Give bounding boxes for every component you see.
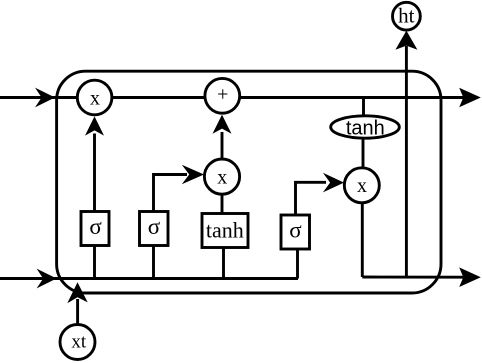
svg-text:σ: σ: [289, 218, 302, 243]
node xt (input): [60, 325, 95, 360]
wire output line (bottom-right horizontal): [362, 276, 464, 279]
wire tanh ellipse to right x-circle: [362, 138, 365, 168]
wire tanh box down to hidden line: [222, 248, 225, 279]
arrowhead into plus-circle from mid x-circle: [213, 115, 232, 134]
arrowhead cell-state output: [459, 88, 481, 108]
svg-text:ht: ht: [398, 3, 415, 27]
add node +: [205, 78, 240, 113]
wire cell-state line (top horizontal): [0, 96, 464, 99]
wire sigma1 down to hidden line: [93, 246, 96, 279]
wire sigma2 down to hidden line: [152, 246, 155, 279]
arrowhead xt up: [67, 282, 87, 303]
gate box sigma2: [140, 212, 169, 246]
wire ht vertical line: [405, 46, 408, 277]
multiply node x2 (input gate): [204, 159, 239, 194]
svg-text:tanh: tanh: [346, 117, 385, 139]
wire hidden-state input line (bottom-left horizontal): [0, 277, 298, 280]
svg-text:x: x: [90, 87, 100, 109]
gate box sigma3: [281, 215, 310, 249]
svg-text:σ: σ: [89, 214, 102, 239]
arrowhead output line: [459, 267, 481, 287]
arrowhead into mid x-circle from sigma2: [182, 165, 204, 185]
svg-text:xt: xt: [71, 332, 87, 353]
node ht (output): [393, 2, 421, 30]
svg-text:σ: σ: [148, 214, 161, 239]
wire sigma3 down to hidden line: [296, 249, 299, 279]
multiply node x1 (forget gate): [77, 80, 112, 115]
wire right x-circle down to output line: [361, 203, 364, 277]
svg-text:+: +: [217, 83, 228, 105]
wire sigma3 elbow to right x-circle: [296, 182, 327, 215]
tanh ellipse (cell output activation): [331, 116, 400, 138]
arrowhead cell-state input: [35, 88, 55, 108]
arrowhead ht up: [395, 31, 417, 50]
cell body rounded rectangle: [57, 71, 441, 293]
wire mid x-circle down to tanh box: [221, 194, 224, 214]
arrowhead into right x-circle from sigma3: [323, 173, 344, 193]
wire sigma2 elbow to mid x-circle: [154, 175, 188, 212]
wire sigma1 to x-circle (vertical): [93, 134, 96, 212]
wire cell-state down to tanh ellipse: [362, 98, 365, 117]
svg-text:x: x: [357, 175, 367, 197]
wire xt vertical line: [76, 299, 79, 325]
gate box tanh: [202, 214, 248, 248]
arrowhead hidden-state input: [37, 269, 57, 289]
svg-text:x: x: [217, 166, 227, 188]
gate box sigma1: [81, 212, 109, 246]
svg-text:tanh: tanh: [206, 218, 244, 243]
wire mid x-circle up to plus-circle: [221, 132, 224, 160]
arrowhead into left x-circle from sigma1: [85, 116, 104, 135]
multiply node x3 (output gate): [344, 168, 379, 203]
